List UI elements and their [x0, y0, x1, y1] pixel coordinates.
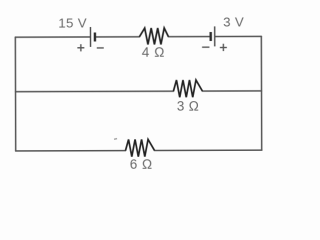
wire top rail segment (3 V battery to right corner) — [215, 35, 261, 37]
wire top rail segment (left corner to 15 V battery) — [15, 36, 90, 38]
resistor R1 4 ohm — [139, 28, 168, 44]
svg-text:15 V: 15 V — [58, 15, 87, 30]
battery V1 15 V — [90, 27, 94, 47]
polarity - of battery V1 — [97, 47, 104, 49]
svg-text:4 Ω: 4 Ω — [142, 45, 165, 60]
battery V2 3 V — [211, 26, 215, 46]
scan speck artifact — [114, 138, 117, 141]
wire left rail — [14, 37, 16, 151]
polarity + of battery V2 — [220, 44, 227, 51]
svg-text:3 Ω: 3 Ω — [177, 99, 199, 114]
polarity - of battery V2 — [202, 46, 209, 48]
wire middle rail segment (3 ohm resistor to right rail) — [202, 90, 261, 92]
wire right rail — [260, 36, 262, 150]
svg-text:6 Ω: 6 Ω — [130, 157, 153, 172]
resistor R3 6 ohm — [125, 139, 154, 156]
wire bottom rail segment (6 ohm resistor to right corner) — [155, 149, 262, 151]
polarity + of battery V1 — [77, 44, 84, 51]
wire middle rail segment (left rail to 3 ohm resistor) — [16, 90, 174, 93]
wire top rail segment (15 V battery to 4 ohm resistor) — [96, 36, 140, 38]
resistor R2 3 ohm — [173, 80, 202, 97]
svg-text:3 V: 3 V — [223, 14, 244, 29]
wire top rail segment (4 ohm resistor to 3 V battery) — [168, 36, 210, 38]
wire bottom rail segment (left corner to 6 ohm resistor) — [16, 150, 126, 152]
